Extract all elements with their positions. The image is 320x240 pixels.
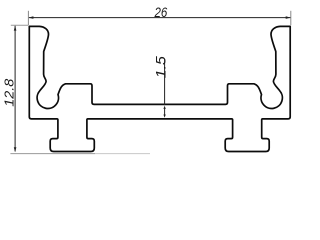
arrow 1.5 down (points to web bottom) xyxy=(163,115,165,118)
arrow 26 left xyxy=(29,16,34,19)
extension line top-right vertical xyxy=(290,11,292,25)
extension line bottom horizontal (bottom of 12.8) xyxy=(10,153,95,155)
dimension leader 1.5 xyxy=(164,59,166,105)
svg-text:1.5: 1.5 xyxy=(154,56,169,79)
extension line top-left vertical xyxy=(27,11,29,25)
extension line left horizontal (top of 12.8) xyxy=(11,24,29,26)
svg-text:12.8: 12.8 xyxy=(1,78,16,107)
profile outline: aluminum extrusion cross-section xyxy=(29,26,290,151)
svg-text:26: 26 xyxy=(154,4,168,20)
extension line bottom horizontal faint continuation xyxy=(95,153,150,155)
dimension line 12.8 xyxy=(14,26,16,152)
arrow 1.5 (points up to web top) xyxy=(163,106,165,109)
arrow 26 right xyxy=(286,16,291,19)
arrow 1.5 connector xyxy=(164,109,166,115)
dimension line 26 xyxy=(29,17,291,19)
arrow 12.8 top xyxy=(14,26,17,31)
arrow 12.8 bottom xyxy=(14,147,17,152)
